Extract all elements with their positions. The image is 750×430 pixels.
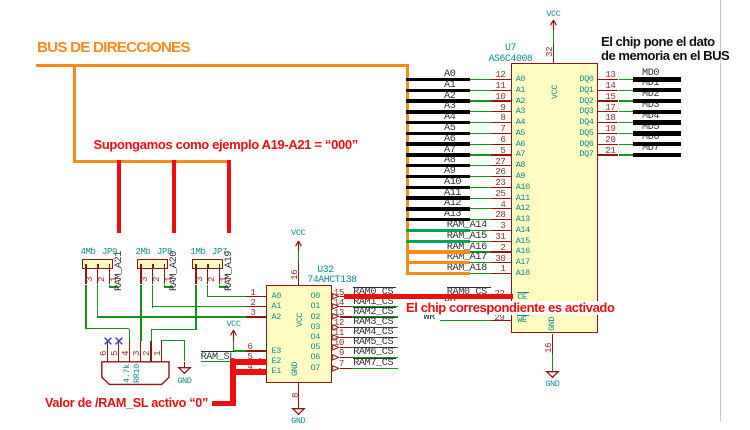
U32 pin name GND (rotated) [291,344,300,376]
pin number 5 [500,146,505,155]
pin number 15 [334,288,344,297]
net label RAM2_CS [353,307,397,308]
net label A9 [444,167,455,177]
net label RAM_A14 [447,221,487,231]
annotation red vertical to RAM_A20 [172,160,176,233]
annotation bar A3 [406,110,470,113]
RAM U7 value AS6C4008 [489,54,533,64]
U32 pin name O0 [311,292,320,301]
pin number 14 [334,298,344,307]
wire RAM7_CS [352,368,398,369]
pin 8 (U7 A4) [491,122,511,123]
wire RAM_A18 [470,273,492,274]
pin number 30 [495,254,505,263]
jumper JP7 body [192,259,223,269]
U7 pin name DQ3 [579,107,593,116]
pin 4 (U32 E1) [246,371,266,372]
U7 pin name A17 [516,258,530,267]
annotation text Supongamos [94,138,358,151]
U7 pin name A13 [516,215,530,224]
pin number 11 [495,81,505,90]
pin number 11 [334,328,344,337]
pin 2 (U32 A1) [246,306,266,307]
pin number 8 [500,113,505,122]
pin number 6 [500,135,505,144]
no-connect X mark [115,337,123,345]
wire A9 [470,176,492,177]
wire RAM0_CS [352,296,398,297]
wire RR10 pin1 to GND (horizontal) [161,340,185,341]
U7 pin name DQ4 [579,118,593,127]
annotation bar A8 [406,164,470,167]
jumper JP9 pin contacts [85,264,87,269]
wire JP9 pin3 to RR10 pin4 (horizontal) [85,328,129,329]
bus annotation horizontal top (BUS DE DIRECCIONES) [36,64,409,67]
net label A6 [444,135,455,145]
net label RAM7_CS [353,358,397,359]
pin number 10 [334,338,344,347]
pin number 4 [247,362,252,371]
annotation text El chip correspondiente es activado [406,301,616,315]
annotation thick red RAM0_CS to CE [344,294,513,299]
annotation bar A5 [406,132,470,135]
pin 8 (U32 GND) [298,383,299,408]
wire RAM_A16 [470,251,492,252]
pin 10 (U7 A2) [491,100,511,101]
pin 14 (U32 O1) [340,306,353,307]
U32 pin name O2 [311,313,320,322]
pin number 25 [495,189,505,198]
U7 pin name CE (active low) [517,292,529,293]
net label RAM_A17 [447,253,487,263]
wire RAM6_CS [352,357,398,358]
net label A5 [444,124,455,134]
U7 pin name DQ1 [579,86,593,95]
wire VCC to U32 E3 (horizontal) [234,350,247,351]
net label RAM0_CS [353,287,397,288]
net label WR (partially hidden) [424,313,435,323]
pin 13 (U32 O2) [340,316,353,317]
pin number 15 [605,92,615,101]
U7 pin name VCC (rotated) [551,67,560,99]
ground label GND [545,380,559,389]
ground label GND [177,377,191,386]
wire RAM_A17 [470,262,492,263]
inversion triangle E2 [259,358,266,365]
power symbol VCC above U7 [546,10,560,19]
annotation bar RAM_A17 [406,261,470,264]
U7 pin name A15 [516,237,530,246]
RR10 pin number 6 [99,296,108,356]
annotation bar A6 [406,142,470,145]
wire RR10 pin1 to GND (vertical) [184,341,185,362]
pin number 10 [495,92,505,101]
U7 pin name A0 [516,75,525,84]
annotation bar MD3 [633,110,681,114]
pin number 18 [605,113,615,122]
pin 11 (U7 A1) [491,90,511,91]
pin 17 (U7 DQ3) [598,111,618,112]
pin OE wire [444,308,511,309]
pin 19 (U7 DQ5) [598,133,618,134]
U7 pin name OE (active low) [517,303,529,304]
jumper JP9 value 4Mb [81,248,96,257]
wire JP7 pin3 to RR10 pin2 (horizontal) [151,329,197,330]
net label RAM_A20 (vertical) [170,239,180,291]
wire VCC to U7 pin 32 [553,30,554,45]
pin 25 (U7 A11) [491,198,511,199]
annotation thick red RAM_SL to E2 [230,359,267,365]
net label RAM_A21 (vertical) [115,239,125,291]
annotation thick red to E1 [230,369,267,375]
pin number 23 [495,178,505,187]
jumper JP9 pin 2 [97,269,98,285]
resistor network RR10 pin 2 [150,341,151,362]
annotation title BUS DE DIRECCIONES [37,40,190,55]
annotation bar A10 [406,186,470,189]
pin number 16 [290,220,299,280]
inversion triangle O0 [332,293,339,300]
wire A8 [470,165,492,166]
U7 pin name A3 [516,107,525,116]
resistor network RR10 pin 1 [161,341,162,362]
pin number 16 [544,293,553,353]
U7 pin name A2 [516,97,525,106]
U7 pin name A4 [516,118,525,127]
wire WR to U7 WE [440,320,491,321]
U7 pin name A1 [516,86,525,95]
ground symbol below U32 [292,408,305,415]
inversion triangle O7 [332,365,339,372]
annotation bar RAM_A18 [406,272,470,275]
bus annotation horizontal to jumpers [73,160,231,163]
U7 pin name DQ7 [579,150,593,159]
U32 pin name O5 [311,343,320,352]
wire A6 [470,144,492,145]
pin number 13 [605,70,615,79]
annotation bar A12 [406,207,470,210]
wire RAM2_CS [352,316,398,317]
wire MD5 [619,133,635,134]
decoder U32 reference [317,265,333,275]
U32 pin name O1 [311,302,320,311]
annotation red vertical to RAM_A19 [227,160,231,233]
wire JP7 pin2 to U32 A0 (horizontal) [207,296,246,297]
U32 pin name O4 [311,333,320,342]
annotation bar RAM_A15 [406,240,470,243]
wire A12 [470,208,492,209]
resistor network RR10 pin 6 [107,341,108,362]
pin 16 (U7 GND) [552,334,553,354]
pin number 1 [250,288,255,297]
net label MD5 [642,123,659,133]
pin 20 (U7 DQ6) [598,144,618,145]
net label RAM_A18 [447,264,487,274]
wire RAM_A21 stub from JP9 pin 1 [109,285,110,288]
net label RAM_A16 [447,243,487,253]
pin number 9 [339,348,344,357]
pin number 24 [494,300,504,309]
resistor network RR10 pin 4 [129,341,130,362]
jumper JP8 body [137,259,168,269]
pin 29 (U7 WE) [491,320,511,321]
jumper JP9 pin 1 [109,269,110,285]
wire JP8 pin2 to U32 A1 (horizontal) [152,306,246,307]
U7 pin name A9 [516,172,525,181]
U7 pin name A5 [516,129,525,138]
net label A13 [444,210,461,220]
wire A4 [470,122,492,123]
wire JP7 pin2 to U32 A0 (vertical) [207,285,208,298]
RR10 pin number 5 [110,296,119,356]
pin number 19 [605,124,615,133]
net label RAM_A19 (vertical) [225,239,235,291]
U7 pin name WE (active low) [517,315,529,316]
annotation bar MD2 [633,99,681,103]
pin 7 (U32 O7) [340,368,353,369]
pin number 12 [495,70,505,79]
U7 pin name A6 [516,140,525,149]
pin 21 (U7 DQ7) [598,154,618,155]
op-amp? no: decoder U32 body [266,285,332,382]
wire MD2 [619,100,635,101]
pin number 12 [334,318,344,327]
jumper JP7 value 1Mb [191,248,206,257]
power symbol VCC (enable pull-up) [226,320,240,329]
decoder U32 value 74AHCT138 [307,275,356,285]
U32 pin name E1 [272,367,281,376]
RR10 pin number 1 [153,296,162,356]
annotation bar A7 [406,153,470,156]
pin number 17 [605,103,615,112]
jumper JP7 pin 1 [219,269,220,285]
pin 12 (U7 A0) [491,79,511,80]
wire A1 [470,90,492,91]
inversion triangle O2 [332,313,339,320]
pin 32 (U7 VCC) [553,45,554,63]
wire RAM_A19 stub from JP7 pin 1 [219,285,220,288]
wire A13 [470,219,492,220]
pin number 3 [250,308,255,317]
wire JP7 pin3 to RR10 pin2 (drop) [151,330,152,342]
annotation bar A4 [406,121,470,124]
jumper JP7 pin numbers 3 2 1 [195,222,204,282]
wire RAM5_CS [352,347,398,348]
U7 pin name DQ0 [579,75,593,84]
pin number 9 [500,103,505,112]
annotation bar MD4 [633,120,681,124]
U32 pin name A1 [272,302,281,311]
wire A2 [470,100,492,101]
wire MD7 [619,154,635,155]
net label MD6 [642,133,659,143]
jumper JP9 body [82,259,113,269]
inversion triangle O5 [332,344,339,351]
wire A3 [470,111,492,112]
pin number 2 [500,243,505,252]
annotation red vertical to RAM_A21 [117,160,121,233]
pin 9 (U32 O6) [340,357,353,358]
pin number 7 [500,124,505,133]
pin number 3 [500,221,505,230]
U7 pin name A10 [516,183,530,192]
annotation text El chip pone el dato de memoria en el BUS [601,35,729,64]
U7 pin name A8 [516,161,525,170]
annotation bar A9 [406,175,470,178]
ground symbol below U7 [546,371,559,378]
wire A0 [470,79,492,80]
jumper JP7 pin 2 [207,269,208,285]
pin 1 (U32 A0) [246,296,266,297]
wire RAM_A14 [470,230,492,231]
pin 6 (U7 A6) [491,144,511,145]
jumper JP9 pin 3 [85,269,86,285]
wire RAM_SL [201,361,234,362]
net label MD7 [642,144,659,154]
net label MD2 [642,90,659,100]
pin 31 (U7 A15) [491,241,511,242]
U32 pin name O7 [311,364,320,373]
pin 27 (U7 A8) [491,165,511,166]
pin number 20 [605,135,615,144]
pin 11 (U32 O4) [340,337,353,338]
wire JP9 pin2 to U32 A2 (vertical) [97,285,98,318]
bus annotation vertical right (address bus into U7) [406,64,409,276]
pin 1 (U7 A18) [491,273,511,274]
pin 6 (U32 E3) [246,350,266,351]
pin number 7 [339,359,344,368]
annotation bar A0 [406,78,470,81]
resistor network RR10 pin 5 [118,341,119,362]
net label A10 [444,178,461,188]
pin number 14 [605,81,615,90]
U7 pin name DQ2 [579,97,593,106]
wire VCC to U32 E3 (vertical) [233,341,234,352]
wire A11 [470,198,492,199]
pin 16 (U32 VCC) [298,262,299,285]
pin 18 (U7 DQ4) [598,122,618,123]
RR10 pin number 4 [121,296,130,356]
U7 pin name DQ6 [579,140,593,149]
ground symbol near RR10 [184,362,185,368]
wire MD6 [619,144,635,145]
inversion triangle O3 [332,324,339,331]
net label MD4 [642,112,659,122]
net label RAM5_CS [353,337,397,338]
pin 5 (U7 A7) [491,154,511,155]
RAM U7 reference [505,43,516,53]
U32 pin name A2 [272,313,281,322]
ground label GND [291,417,305,426]
net label RAM1_CS [353,297,397,298]
wire MD0 [619,79,635,80]
U32 pin name E3 [272,347,281,356]
annotation bar A2 [406,99,470,102]
pin number 8 [291,338,300,398]
wire RAM_A20 stub from JP8 pin 1 [164,285,165,288]
inversion triangle E1 [259,368,266,375]
jumper JP8 value 2Mb [136,248,151,257]
annotation bar MD1 [633,88,681,92]
pin number 4 [500,200,505,209]
U7 pin name A18 [516,269,530,278]
pin 26 (U7 A9) [491,176,511,177]
U7 pin name A16 [516,247,530,256]
U32 pin name VCC (rotated) [296,295,305,327]
jumper JP8 pin 1 [164,269,165,285]
pin 30 (U7 A17) [491,262,511,263]
U7 pin name DQ5 [579,129,593,138]
net label MD1 [642,79,659,89]
pin 7 (U7 A5) [491,133,511,134]
pin 5 (U32 E2) [246,361,266,362]
annotation bar A13 [406,218,470,221]
pin 3 (U7 A14) [491,230,511,231]
bus annotation vertical left drop [73,64,76,164]
wire JP9 pin3 to RR10 pin4 (vertical) [85,285,86,330]
wire A10 [470,187,492,188]
wire JP8 pin2 to U32 A1 (vertical) [152,285,153,308]
U7 pin name A11 [516,194,530,203]
wire JP7 pin3 to RR10 pin2 (vertical) [195,285,196,331]
net label A12 [444,199,461,209]
pin number 27 [495,157,505,166]
RR10 pin number 2 [142,296,151,356]
jumper JP7 reference [212,248,227,257]
pin 23 (U7 A10) [491,187,511,188]
net label RAM_SL (active low overbar) [201,351,234,352]
jumper JP9 pin numbers 3 2 1 [85,222,94,282]
wire A7 [470,154,492,155]
jumper JP8 pin contacts [140,264,142,269]
pin 14 (U7 DQ1) [598,90,618,91]
annotation bar MD0 [633,77,681,81]
jumper JP8 pin 3 [140,269,141,285]
U32 pin name O3 [311,323,320,332]
wire A5 [470,133,492,134]
pin 2 (U7 A16) [491,251,511,252]
inversion triangle O4 [332,334,339,341]
sheet border right edge [720,0,721,422]
wire JP9 pin2 to U32 A2 (horizontal) [97,316,246,317]
pin 9 (U7 A3) [491,111,511,112]
pin number 13 [334,308,344,317]
net label A7 [444,146,455,156]
annotation bar A1 [406,89,470,92]
junction RAM_SL / enable branch [231,360,235,364]
inversion triangle O6 [332,354,339,361]
pin 13 (U7 DQ0) [598,79,618,80]
wire MD4 [619,122,635,123]
resistor network RR10 pin 3 [140,341,141,362]
pin number 32 [545,0,554,57]
wire RAM4_CS [352,337,398,338]
jumper JP7 pin 3 [195,269,196,285]
U32 pin name E2 [272,357,281,366]
pin 28 (U7 A13) [491,219,511,220]
annotation bar MD5 [633,131,681,135]
inversion triangle O1 [332,303,339,310]
U7 pin name A14 [516,226,530,235]
annotation text Valor de /RAM_SL activo 0 [45,397,208,410]
wire RAM_A15 [470,241,492,242]
pin 10 (U32 O5) [340,347,353,348]
net label A2 [444,92,455,102]
jumper JP8 pin 2 [152,269,153,285]
resistor network RR10 reference [133,353,142,383]
U7 pin name A7 [516,150,525,159]
net label A4 [444,113,455,123]
